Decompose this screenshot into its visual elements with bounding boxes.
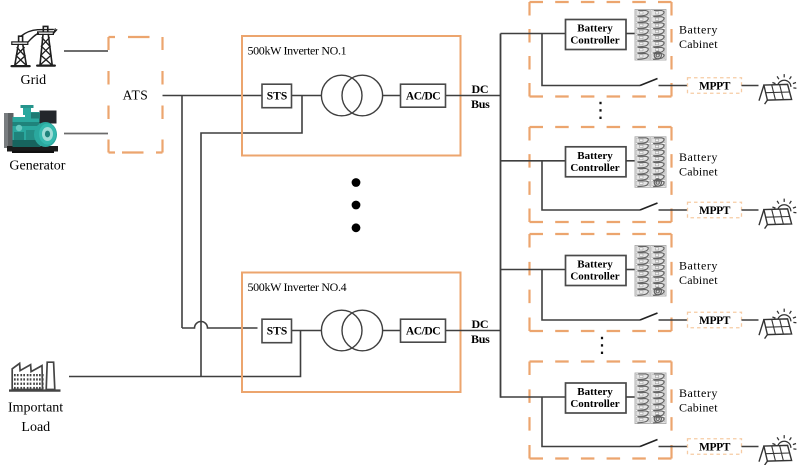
solar panel icon 2	[759, 199, 796, 229]
wire switch to MPPT 1	[659, 85, 688, 87]
battery rack icon 1	[635, 10, 666, 61]
wire STS to transformer	[292, 95, 322, 97]
switch blade 2	[640, 203, 658, 210]
svg-text:Bus: Bus	[471, 97, 490, 111]
AC/DC converter box	[401, 84, 446, 107]
svg-text:DC: DC	[472, 82, 489, 96]
svg-text:DC: DC	[472, 317, 489, 331]
wire MPPT to PV 4	[742, 446, 759, 448]
svg-text:Cabinet: Cabinet	[679, 165, 718, 179]
svg-text:Battery: Battery	[679, 386, 718, 400]
battery rack icon 3	[635, 246, 666, 297]
wire generator to ATS	[64, 133, 108, 135]
wire AC/DC to DC bus	[446, 330, 501, 332]
battery rack icon 2	[635, 137, 666, 188]
wire important load bus	[69, 331, 301, 377]
svg-text:Bus: Bus	[471, 332, 490, 346]
battery controller 3 box	[566, 256, 627, 286]
MPPT box 3	[688, 312, 742, 328]
wire drop to MPPT line 1	[542, 34, 640, 86]
wire vertical ATS bus down to inverter4	[181, 96, 183, 329]
solar panel icon 3	[759, 309, 796, 339]
wire grid to ATS	[64, 50, 108, 52]
wire MPPT to PV 2	[742, 209, 759, 211]
MPPT box 2	[688, 202, 742, 218]
svg-text:Controller: Controller	[570, 271, 619, 283]
STS box U1	[262, 84, 292, 108]
grid utility icon	[12, 26, 57, 66]
wire AC/DC to DC bus	[446, 95, 501, 97]
svg-text:MPPT: MPPT	[699, 205, 731, 217]
switch blade 4	[640, 440, 658, 447]
svg-text:Controller: Controller	[570, 398, 619, 410]
svg-text:STS: STS	[267, 90, 287, 102]
svg-text:500kW Inverter NO.1: 500kW Inverter NO.1	[248, 43, 347, 57]
ellipsis dots between inverters	[352, 178, 361, 232]
wire DC bus to battery controller 1	[501, 33, 566, 35]
wire DC bus to battery controller 3	[501, 269, 566, 271]
ellipsis dots battery bottom	[601, 337, 603, 354]
switch blade 3	[640, 313, 658, 320]
svg-text:MPPT: MPPT	[699, 442, 731, 454]
factory windows	[14, 374, 44, 389]
svg-text:ATS: ATS	[123, 87, 149, 102]
svg-text:Battery: Battery	[679, 23, 718, 37]
ATS box	[109, 37, 163, 153]
transformer T1	[321, 75, 362, 116]
wire MPPT to PV 3	[742, 319, 759, 321]
ellipsis dots battery top	[599, 102, 601, 119]
svg-text:Load: Load	[21, 420, 50, 435]
wire MPPT to PV 1	[742, 85, 759, 87]
svg-text:Controller: Controller	[570, 35, 619, 47]
inverter NO.4 box	[242, 273, 461, 393]
wire controller to battery rack 1	[626, 33, 635, 35]
battery controller 2 box	[566, 147, 627, 177]
wire controller to battery rack 2	[626, 160, 635, 162]
wire drop to MPPT line 3	[542, 270, 640, 321]
svg-text:Cabinet: Cabinet	[679, 273, 718, 287]
battery rack icon 4	[635, 373, 666, 424]
wire switch to MPPT 3	[659, 319, 688, 321]
wire ATS output to STS1	[163, 95, 263, 97]
solar panel icon 4	[759, 435, 796, 465]
wire drop to MPPT line 4	[542, 397, 640, 447]
svg-text:Battery: Battery	[577, 23, 613, 35]
battery cabinet 3 dashed box	[530, 234, 672, 331]
wire STS1 output bypass down	[201, 96, 302, 377]
MPPT box 1	[688, 78, 742, 94]
svg-text:AC/DC: AC/DC	[406, 90, 440, 102]
svg-text:Generator: Generator	[9, 159, 65, 174]
wire controller to battery rack 3	[626, 269, 635, 271]
svg-text:Cabinet: Cabinet	[679, 401, 718, 415]
switch blade 1	[640, 79, 658, 86]
svg-text:STS: STS	[267, 325, 287, 337]
wire DC bus to battery controller 4	[501, 396, 566, 398]
svg-text:Grid: Grid	[20, 73, 46, 88]
wire to STS4 with hop	[182, 322, 258, 329]
svg-text:Battery: Battery	[577, 150, 613, 162]
wire transformer to AC/DC	[383, 95, 400, 97]
inverter NO.1 box	[242, 36, 461, 156]
svg-text:Battery: Battery	[577, 259, 613, 271]
battery controller 4 box	[566, 383, 627, 413]
battery cabinet 4 dashed box	[530, 362, 672, 459]
solar panel icon 1	[759, 74, 796, 104]
MPPT box 4	[688, 439, 742, 455]
svg-text:MPPT: MPPT	[699, 81, 731, 93]
wire DC bus to battery controller 2	[501, 160, 566, 162]
svg-text:Cabinet: Cabinet	[679, 37, 718, 51]
important load factory icon	[9, 362, 61, 390]
DC bus vertical line	[500, 34, 502, 398]
wire STS to transformer	[292, 330, 322, 332]
battery cabinet 2 dashed box	[530, 127, 672, 222]
svg-text:Battery: Battery	[679, 150, 718, 164]
transformer T4	[321, 310, 362, 351]
wire switch to MPPT 4	[659, 446, 688, 448]
wire switch to MPPT 2	[659, 209, 688, 211]
svg-text:Battery: Battery	[577, 386, 613, 398]
svg-text:Controller: Controller	[570, 162, 619, 174]
svg-text:Battery: Battery	[679, 259, 718, 273]
generator icon	[4, 105, 58, 153]
battery cabinet 1 dashed box	[530, 2, 672, 97]
svg-text:Important: Important	[8, 401, 63, 416]
svg-text:500kW Inverter NO.4: 500kW Inverter NO.4	[248, 280, 347, 294]
wire drop to MPPT line 2	[542, 161, 640, 210]
wire controller to battery rack 4	[626, 396, 635, 398]
AC/DC converter box	[401, 319, 446, 342]
svg-text:MPPT: MPPT	[699, 315, 731, 327]
STS box U4	[262, 319, 292, 343]
svg-text:AC/DC: AC/DC	[406, 325, 440, 337]
battery controller 1 box	[566, 20, 627, 50]
wire transformer to AC/DC	[383, 330, 400, 332]
